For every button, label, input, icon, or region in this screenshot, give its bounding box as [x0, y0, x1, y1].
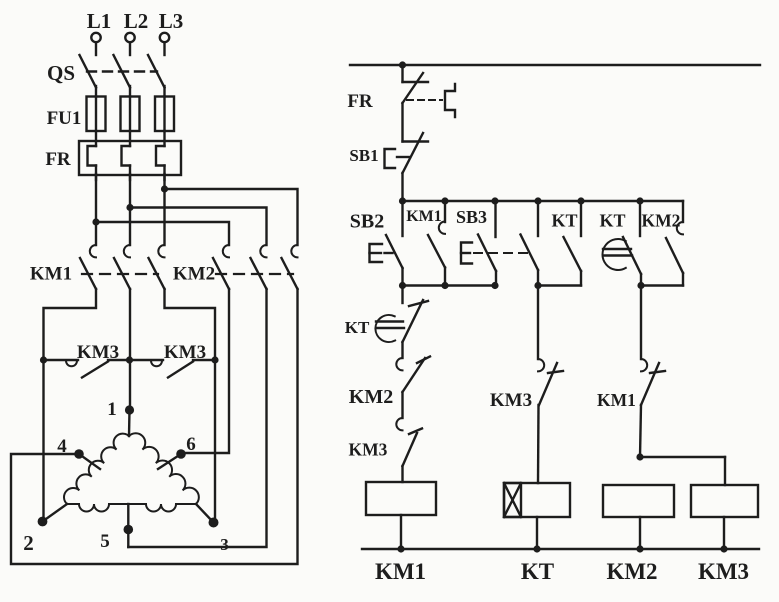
svg-text:KM1: KM1	[406, 208, 442, 225]
svg-text:KM3: KM3	[490, 390, 532, 411]
svg-text:KM3: KM3	[349, 440, 388, 460]
svg-text:KT: KT	[345, 318, 370, 337]
svg-text:KM2: KM2	[606, 559, 657, 584]
svg-text:3: 3	[220, 535, 229, 554]
svg-text:KT: KT	[521, 559, 554, 584]
svg-text:1: 1	[107, 399, 117, 420]
svg-text:KM2: KM2	[173, 264, 215, 285]
svg-text:5: 5	[100, 531, 110, 552]
svg-text:SB1: SB1	[349, 146, 378, 165]
svg-text:KT: KT	[599, 211, 625, 231]
svg-text:KM1: KM1	[30, 264, 72, 285]
svg-text:KM3: KM3	[164, 342, 206, 363]
svg-text:KM2: KM2	[642, 211, 681, 231]
svg-text:KT: KT	[551, 211, 577, 231]
svg-text:KM3: KM3	[77, 342, 119, 363]
svg-text:QS: QS	[47, 61, 75, 85]
svg-text:2: 2	[23, 531, 34, 555]
svg-text:KM1: KM1	[597, 390, 636, 410]
svg-text:KM1: KM1	[375, 559, 426, 584]
svg-text:L1: L1	[87, 9, 112, 33]
svg-text:FR: FR	[347, 91, 373, 112]
svg-text:SB3: SB3	[456, 207, 487, 227]
svg-text:KM2: KM2	[349, 386, 393, 408]
svg-text:SB2: SB2	[350, 211, 384, 233]
svg-text:L2: L2	[124, 9, 149, 33]
svg-text:L3: L3	[159, 9, 184, 33]
svg-text:FU1: FU1	[47, 108, 82, 129]
svg-text:KM3: KM3	[698, 559, 749, 584]
svg-text:FR: FR	[45, 149, 71, 170]
